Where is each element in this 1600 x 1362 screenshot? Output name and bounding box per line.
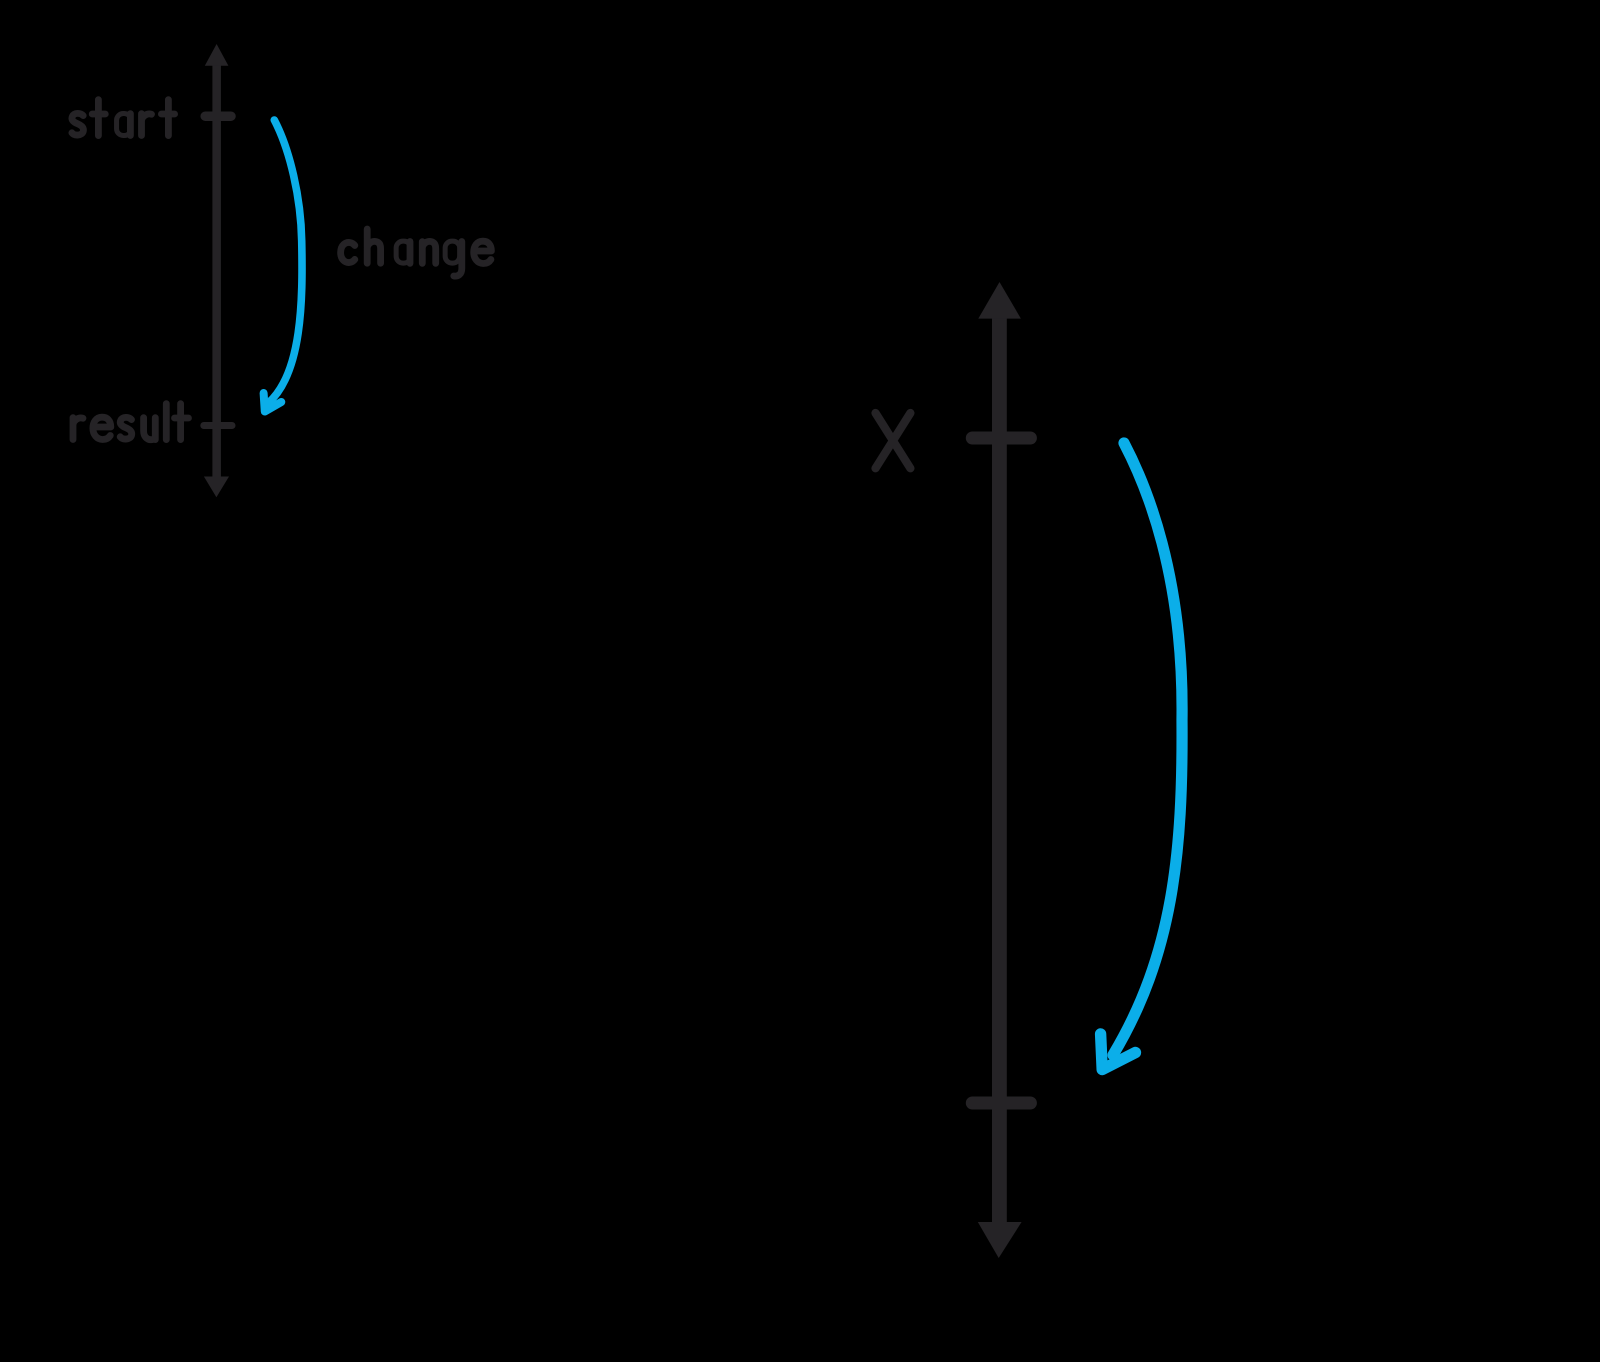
a bbox=[396, 241, 411, 263]
label X (right line) bbox=[876, 413, 911, 468]
e bbox=[474, 241, 492, 263]
number line (left) top arrowhead bbox=[205, 44, 229, 66]
arrowhead (right blue) bbox=[1101, 1034, 1136, 1070]
t bbox=[175, 404, 189, 440]
t (2nd) bbox=[161, 100, 174, 136]
arrow (right blue curved arrow) bbox=[1101, 443, 1182, 1070]
number line (right) shaft bbox=[972, 282, 1030, 1258]
arrow change (left blue curved arrow) bbox=[264, 120, 302, 412]
a bbox=[117, 114, 132, 136]
tick lower (right line) bbox=[972, 1097, 1030, 1110]
r bbox=[73, 418, 83, 440]
number line (right) top arrowhead bbox=[978, 282, 1021, 319]
number line (left) shaft bbox=[204, 44, 232, 497]
label "change" (hand-rounded glyph strokes) bbox=[341, 229, 492, 276]
r bbox=[142, 114, 152, 136]
s bbox=[72, 113, 84, 135]
n bbox=[422, 241, 435, 263]
h bbox=[367, 229, 380, 263]
label "start" (hand-rounded glyph strokes) bbox=[72, 100, 175, 136]
arrowhead (left blue) bbox=[264, 393, 282, 412]
u bbox=[144, 418, 156, 440]
tick start (left line) bbox=[205, 111, 231, 121]
l bbox=[163, 404, 170, 440]
t (1st) bbox=[92, 100, 105, 136]
tick X (right line) bbox=[972, 432, 1030, 445]
s bbox=[120, 417, 132, 439]
number line (left) bottom arrowhead bbox=[204, 477, 229, 498]
c bbox=[341, 242, 355, 262]
label "result" (hand-rounded glyph strokes) bbox=[73, 404, 189, 440]
tick result (left line) bbox=[204, 422, 232, 429]
g bbox=[445, 241, 460, 263]
e bbox=[93, 417, 111, 439]
number line (right) bottom arrowhead bbox=[978, 1222, 1022, 1258]
